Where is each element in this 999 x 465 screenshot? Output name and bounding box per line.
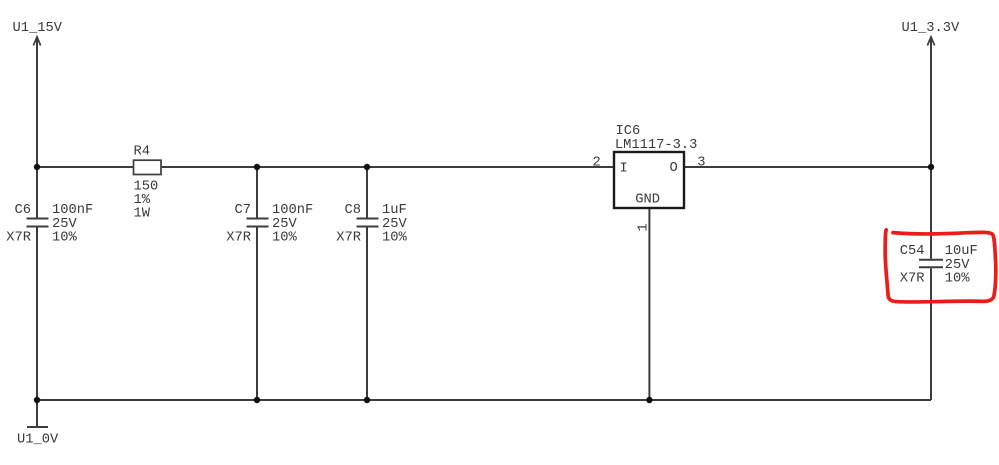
svg-text:X7R: X7R: [226, 231, 251, 246]
svg-text:X7R: X7R: [6, 231, 31, 246]
svg-text:C8: C8: [344, 203, 361, 218]
svg-text:C7: C7: [234, 203, 251, 218]
svg-text:IC6: IC6: [616, 124, 641, 139]
svg-text:3: 3: [697, 155, 705, 170]
svg-text:1W: 1W: [134, 207, 151, 222]
svg-text:1uF: 1uF: [382, 203, 407, 218]
svg-text:X7R: X7R: [900, 272, 925, 287]
svg-text:X7R: X7R: [336, 231, 361, 246]
svg-text:U1_15V: U1_15V: [13, 21, 63, 36]
svg-text:I: I: [620, 162, 628, 177]
svg-text:C54: C54: [900, 244, 925, 259]
svg-text:10%: 10%: [52, 231, 78, 246]
svg-text:LM1117-3.3: LM1117-3.3: [615, 138, 698, 153]
svg-text:25V: 25V: [272, 217, 298, 232]
svg-text:2: 2: [593, 155, 601, 170]
svg-text:100nF: 100nF: [52, 203, 93, 218]
svg-text:R4: R4: [134, 145, 151, 160]
svg-text:C6: C6: [14, 203, 31, 218]
svg-text:O: O: [670, 161, 678, 176]
svg-text:10%: 10%: [945, 272, 971, 287]
svg-text:25V: 25V: [382, 217, 408, 232]
svg-text:GND: GND: [635, 192, 660, 207]
svg-text:25V: 25V: [52, 217, 78, 232]
svg-text:10%: 10%: [272, 231, 298, 246]
svg-text:U1_3.3V: U1_3.3V: [902, 21, 961, 36]
svg-text:10uF: 10uF: [945, 244, 978, 259]
svg-text:10%: 10%: [382, 231, 408, 246]
svg-text:U1_0V: U1_0V: [17, 433, 59, 448]
svg-text:100nF: 100nF: [272, 203, 313, 218]
svg-text:1: 1: [637, 223, 652, 231]
